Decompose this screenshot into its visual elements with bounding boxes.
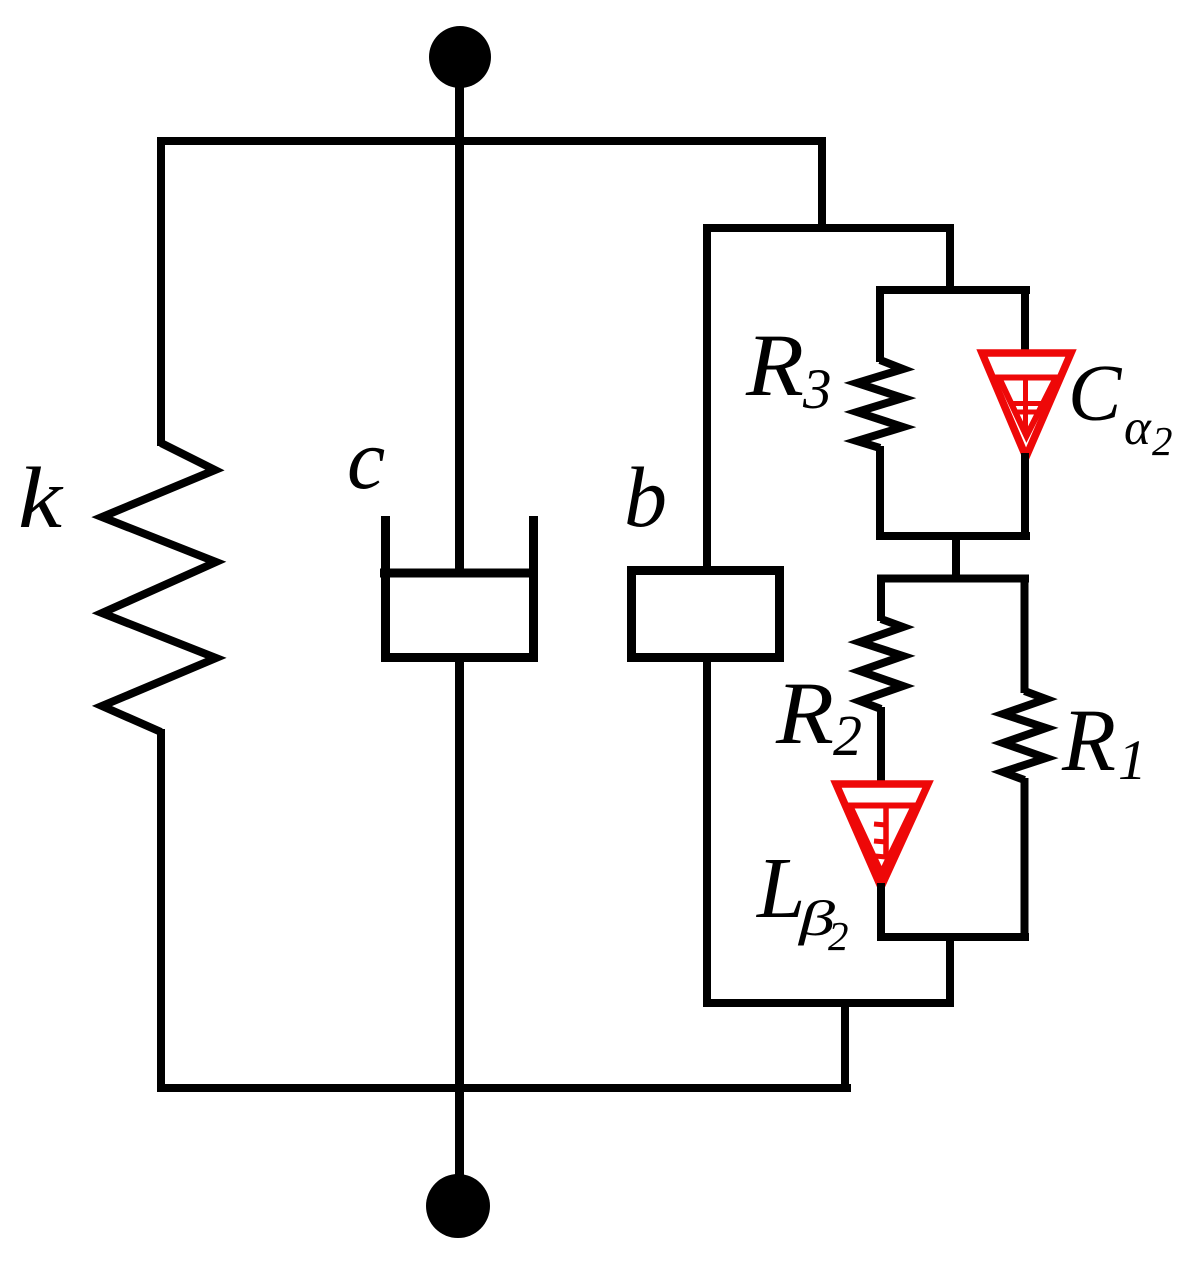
damper c cylinder bbox=[386, 516, 534, 658]
wire: center rod from dashpot cylinder to bottom terminal bbox=[455, 658, 464, 1177]
fractional capacitor C_alpha2 symbol bbox=[982, 353, 1071, 457]
wire: center rod from top terminal to dashpot piston bbox=[455, 57, 464, 573]
wire: lower block top bar bbox=[877, 575, 1029, 583]
friction element b box bbox=[632, 571, 780, 658]
svg-text:b: b bbox=[624, 449, 667, 545]
svg-text:α: α bbox=[1124, 400, 1152, 456]
svg-text:1: 1 bbox=[1118, 729, 1147, 792]
spring k bbox=[102, 443, 216, 732]
svg-text:L: L bbox=[755, 839, 805, 936]
resistor R3 bbox=[857, 360, 903, 448]
wire: connector from bus down to upper RC block bbox=[946, 224, 954, 294]
wire: C branch bottom lead bbox=[1021, 453, 1029, 540]
svg-text:c: c bbox=[347, 411, 385, 507]
svg-text:2: 2 bbox=[1152, 418, 1173, 464]
wire: upper block top bar bbox=[876, 286, 1030, 294]
fractional inductor L_beta2 symbol bbox=[836, 784, 928, 887]
bottom terminal node bbox=[426, 1174, 490, 1238]
wire: left vertical upper bbox=[157, 137, 165, 446]
svg-text:R: R bbox=[775, 665, 834, 763]
wire: R1 bottom lead bbox=[1021, 778, 1029, 941]
wire: bus of b sub-circuit bbox=[703, 224, 954, 232]
resistor R1 bbox=[1003, 691, 1046, 780]
svg-text:3: 3 bbox=[802, 358, 832, 421]
svg-text:2: 2 bbox=[833, 703, 862, 768]
wire: top horizontal bus bbox=[157, 137, 826, 145]
wire: b sub-circuit bottom bar bbox=[703, 999, 954, 1007]
wire: left vertical lower bbox=[157, 729, 165, 1092]
wire: upper block bottom bar bbox=[876, 532, 1030, 540]
wire: R2 to L lead bbox=[877, 707, 885, 785]
wire: L bottom lead bbox=[877, 883, 885, 941]
wire: connector lower block to bottom bar bbox=[946, 933, 954, 1007]
wire: R3 bottom lead bbox=[876, 446, 884, 540]
svg-text:C: C bbox=[1068, 350, 1123, 438]
wire: top-right vertical drop bbox=[818, 137, 826, 232]
damper c piston plate bbox=[380, 569, 538, 578]
svg-text:k: k bbox=[18, 449, 64, 546]
resistor R2 bbox=[860, 619, 903, 709]
wire: R3 top lead bbox=[876, 286, 884, 362]
wire: C branch top lead bbox=[1021, 286, 1029, 355]
wire: drop from bottom bar to bottom bus bbox=[841, 1003, 849, 1092]
svg-text:2: 2 bbox=[828, 913, 849, 959]
wire: connector between upper and lower blocks bbox=[952, 532, 960, 582]
wire: R1 top lead bbox=[1021, 575, 1029, 694]
top terminal node bbox=[429, 26, 491, 88]
svg-text:R: R bbox=[745, 317, 804, 415]
wire: R2 top lead bbox=[877, 575, 885, 622]
wire: bottom horizontal bus bbox=[157, 1084, 851, 1092]
wire: lower block bottom bar bbox=[877, 933, 1029, 941]
svg-text:R: R bbox=[1061, 692, 1116, 790]
wire: left branch vertical of b sub-circuit bbox=[703, 224, 711, 1007]
